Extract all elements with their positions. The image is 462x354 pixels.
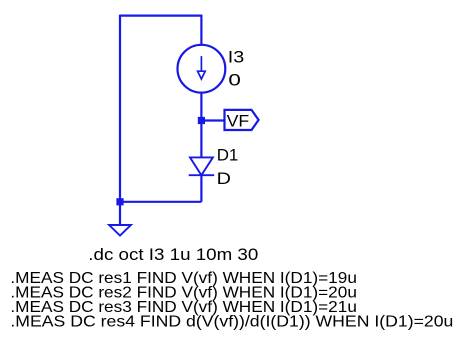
svg-text:VF: VF	[227, 111, 250, 130]
ground symbol triangle	[109, 225, 131, 236]
junction node vf	[198, 117, 205, 124]
wire top horizontal	[120, 15, 201, 17]
svg-text:I3: I3	[228, 47, 245, 66]
wire current source to node vf	[200, 93, 202, 158]
ground stem wire	[119, 202, 121, 225]
current source I3 arrow shaft	[200, 56, 202, 71]
diode D1 triangle	[190, 157, 213, 175]
net flag VF outline	[225, 110, 259, 130]
wire diode to bottom	[200, 175, 202, 202]
junction node ground	[116, 198, 123, 205]
wire junction to flag VF	[201, 119, 224, 121]
svg-text:.dc oct I3 1u 10m 30: .dc oct I3 1u 10m 30	[88, 246, 258, 264]
svg-text:D1: D1	[217, 146, 239, 165]
diode D1 cathode bar	[189, 174, 215, 176]
wire bottom horizontal	[120, 201, 201, 203]
svg-text:0: 0	[228, 70, 241, 89]
current source I3 circle	[178, 45, 226, 93]
svg-text:.MEAS DC res4 FIND d(V(vf))/d(: .MEAS DC res4 FIND d(V(vf))/d(I(D1)) WHE…	[10, 314, 453, 331]
wire left vertical	[119, 15, 121, 202]
svg-text:D: D	[217, 169, 231, 188]
wire from top to current source	[200, 15, 202, 45]
current source I3 arrowhead	[198, 71, 206, 79]
